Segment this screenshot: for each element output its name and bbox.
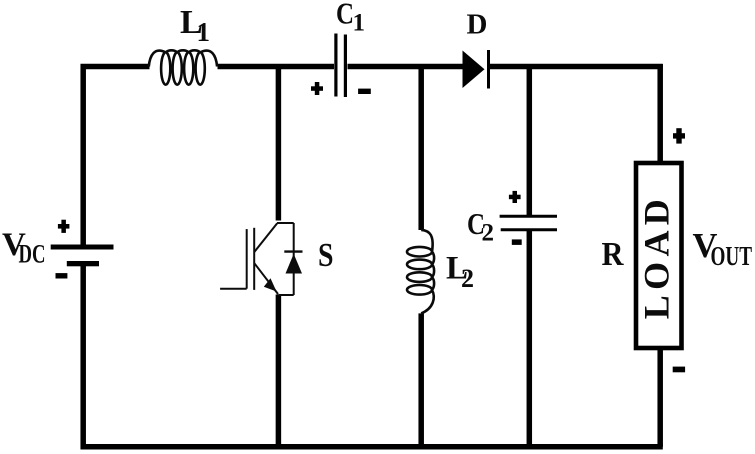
wire: left rail upper (corner to battery +) [80,64,86,245]
svg-text:2: 2 [461,264,474,293]
C2 minus sign [512,239,522,245]
svg-text:R: R [602,236,624,273]
wire: load branch upper (top-right corner to LOAD box) [657,64,663,162]
load box [636,163,682,348]
IGBT S: collector link [220,223,302,295]
battery minus sign [56,273,68,278]
inductor L2 coil loops [407,247,432,295]
svg-text:2: 2 [482,220,495,247]
wire: top segment C1 to D [348,64,465,70]
wire: load branch lower (LOAD box to bottom-right corner) [657,348,663,447]
capacitor C2 bottom plate [501,228,557,231]
svg-text:1: 1 [197,17,211,47]
capacitor C1 left plate [334,34,337,97]
wire: L2 branch lower [418,313,424,446]
IGBT S: antiparallel diode triangle [286,254,303,274]
wire: bottom rail [81,444,663,450]
IGBT S: antiparallel diode cathode bar [284,250,302,252]
inductor L1 coil loops [161,52,205,84]
battery VDC short negative plate [67,261,99,266]
wire: C2 branch lower [527,231,533,447]
svg-text:1: 1 [353,9,366,36]
IGBT S: gate lead [220,288,247,290]
load minus sign [673,367,685,373]
capacitor C2 top plate [500,215,557,218]
IGBT S: emitter diagonal [254,263,278,294]
wire: left rail lower (battery - to bottom corner) [80,266,86,449]
diode D triangle [463,51,485,89]
IGBT S: emitter arrowhead [264,278,277,291]
wire: top left segment (VDC to L1) [81,64,150,70]
IGBT S: gate bar right [253,228,255,290]
wire: top segment L1 to C1 [218,64,335,70]
battery plus sign [58,220,70,233]
capacitor C1 right plate [344,35,347,98]
IGBT S: parallel diode branch vertical [293,223,295,295]
wire: L2 branch upper [418,64,424,230]
wire: switch branch upper (top rail to IGBT collector) [276,64,282,221]
diode D cathode bar [487,50,490,89]
svg-text:C: C [336,0,354,30]
wire: switch branch lower (IGBT emitter to bottom rail) [276,295,282,447]
load plus sign [673,128,685,143]
wire: top segment D to top-right corner [489,64,663,70]
IGBT S: gate bar left [246,229,248,289]
inductor L2 coil humps [421,230,434,314]
svg-text:OUT: OUT [711,240,753,271]
svg-text:S: S [318,237,334,274]
IGBT S: emitter link bottom [278,294,293,296]
C2 plus sign [509,191,521,203]
C1 minus sign [358,89,371,94]
inductor L1 coil humps [149,50,217,66]
wire: C2 branch upper [527,64,533,215]
IGBT S: collector diagonal [254,223,277,252]
svg-text:D: D [467,9,488,41]
battery VDC long positive plate [51,245,114,250]
svg-text:DC: DC [19,239,46,268]
C1 plus sign [311,82,323,95]
